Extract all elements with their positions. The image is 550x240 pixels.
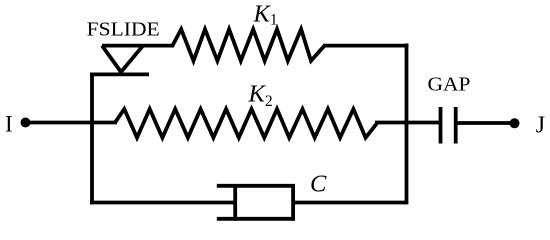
svg-text:FSLIDE: FSLIDE xyxy=(87,20,160,41)
right riser wire xyxy=(405,44,409,205)
node I terminal dot xyxy=(21,118,31,128)
wire I to left riser and K2 xyxy=(27,121,117,125)
capacitor GAP right plate xyxy=(454,107,458,144)
resistor K1 xyxy=(173,29,325,61)
svg-text:K2: K2 xyxy=(248,81,273,111)
bottom wire right segment xyxy=(293,201,407,205)
svg-text:C: C xyxy=(310,170,327,197)
wire K2 to right riser to GAP xyxy=(375,121,439,125)
capacitor C right box edge xyxy=(291,184,295,221)
wire K1 to right riser xyxy=(323,44,408,48)
FSLIDE triangle xyxy=(102,46,143,72)
left riser wire xyxy=(90,73,94,205)
resistor K2 xyxy=(115,109,378,138)
capacitor C bottom edge xyxy=(217,217,295,221)
capacitor C left plate edge xyxy=(233,184,237,221)
wire GAP to J xyxy=(458,121,513,125)
node J terminal dot xyxy=(510,118,520,128)
capacitor GAP left plate xyxy=(439,107,443,144)
capacitor C top edge xyxy=(217,184,295,188)
top wire through triangle top to K1 xyxy=(102,44,174,48)
svg-text:K1: K1 xyxy=(253,1,278,29)
svg-text:GAP: GAP xyxy=(428,74,471,96)
FSLIDE slider bar xyxy=(90,73,149,77)
bottom wire left segment xyxy=(90,201,234,205)
svg-text:I: I xyxy=(5,112,13,137)
svg-text:J: J xyxy=(536,113,545,139)
